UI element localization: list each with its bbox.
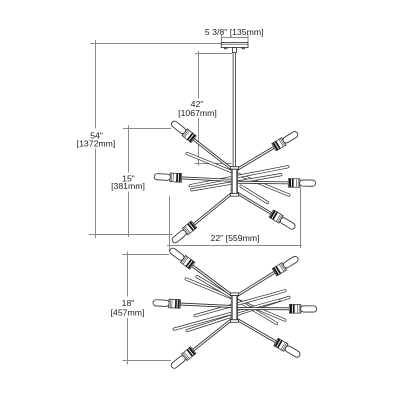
arm lower LR	[229, 312, 302, 359]
dim 22in line	[167, 245, 302, 247]
rod upper n3	[190, 173, 282, 191]
dim 54in/15in shared bottom extension	[89, 234, 173, 236]
dim 54in extension top	[91, 43, 222, 45]
dim 54in line	[95, 40, 97, 238]
rod lower m1	[185, 277, 287, 321]
dim 22in extension right	[300, 187, 302, 248]
dim 15in line	[128, 125, 130, 237]
arm lower L	[153, 298, 237, 311]
rod lower m3	[186, 296, 291, 332]
svg-text:[457mm]: [457mm]	[111, 308, 145, 318]
hub lower	[230, 293, 238, 322]
dim 18in line	[127, 252, 129, 365]
arm upper UL	[169, 119, 240, 177]
svg-text:[381mm]: [381mm]	[111, 181, 145, 191]
dim 5-3/8in line	[222, 35, 249, 43]
svg-text:[1067mm]: [1067mm]	[178, 108, 217, 118]
dim 22in extension left	[169, 196, 171, 251]
arm lower R	[232, 304, 317, 313]
dim 18in label	[111, 298, 145, 318]
canopy	[221, 42, 248, 52]
svg-text:[1372mm]: [1372mm]	[77, 138, 116, 148]
rod lower m2	[195, 275, 278, 325]
svg-text:5 3/8" [135mm]: 5 3/8" [135mm]	[205, 27, 264, 37]
dim 42in extension bottom	[195, 163, 232, 165]
arm upper LL	[170, 186, 240, 245]
rod upper n2	[189, 165, 289, 187]
arm lower UR	[229, 254, 300, 303]
svg-text:18": 18"	[122, 298, 135, 308]
arm lower LL	[169, 312, 240, 371]
dim 18in extension top	[123, 254, 170, 256]
rod upper n4	[239, 184, 269, 204]
rod lower m4	[173, 299, 281, 331]
arm upper L	[154, 172, 237, 185]
dim 18in extension bottom	[123, 360, 172, 362]
arm upper UR	[229, 129, 300, 177]
rod lower m5	[194, 289, 287, 317]
dim 15in extension top	[123, 128, 171, 130]
dim 15in label	[111, 173, 145, 191]
arm lower UL	[168, 246, 240, 303]
svg-text:22" [559mm]: 22" [559mm]	[211, 233, 260, 243]
stem	[233, 53, 236, 167]
arm upper LR	[229, 186, 297, 232]
rod upper n1	[186, 152, 291, 197]
arm upper R	[232, 178, 316, 188]
dim 42in line	[198, 51, 200, 166]
hub upper	[230, 167, 238, 197]
dim 42in extension top	[195, 53, 232, 55]
dim 54in label	[77, 130, 116, 148]
dim 42in label	[178, 99, 217, 118]
